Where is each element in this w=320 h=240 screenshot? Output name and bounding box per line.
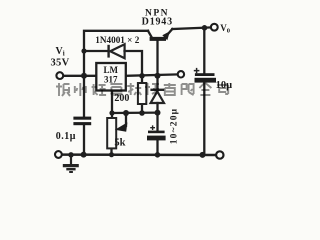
diode D1 triangle <box>110 44 124 58</box>
junction: C2 branch at V0 rail <box>202 25 208 31</box>
junction: input branch at ground rail <box>81 152 87 158</box>
svg-text:317: 317 <box>104 75 118 85</box>
svg-text:35V: 35V <box>51 57 70 68</box>
transistor Q1 D1943 base bar <box>150 37 166 41</box>
junction: D1/R1 branch at output wire <box>139 73 145 79</box>
wire: LM317 output to mid terminal <box>126 74 178 75</box>
wire: pot bottom lead <box>110 148 112 154</box>
junction: diode branch at input node <box>81 48 86 53</box>
wire: transistor emitter diagonal <box>164 29 172 38</box>
capacitor C3 10~20u plates <box>148 131 165 134</box>
svg-text:10~20μ: 10~20μ <box>170 108 180 145</box>
potentiometer R2 5k box <box>107 118 116 148</box>
svg-text:0.1μ: 0.1μ <box>56 131 76 142</box>
junction: ADJ lead at ADJ wire <box>109 110 114 115</box>
wire: emitter rail to V0 terminal <box>172 27 211 29</box>
wire: pot wiper lead from ADJ wire <box>125 113 127 126</box>
terminal mid output <box>178 71 184 77</box>
capacitor C1 0.1u plates <box>73 117 91 120</box>
wire: input node vertical x=84 lower (below 0.1u cap to ground rail) <box>83 125 85 155</box>
wire: transistor collector diagonal <box>148 31 152 38</box>
junction: wiper lead at ADJ wire <box>123 110 129 116</box>
svg-text:5k: 5k <box>114 138 125 149</box>
svg-text:D1943: D1943 <box>142 17 173 28</box>
wire: C3 bottom to ground rail <box>156 140 158 154</box>
wire: ground rail <box>62 153 216 156</box>
wire: diode to corner then down to LM317 output wire <box>125 51 143 83</box>
diode D2 triangle <box>151 91 164 103</box>
terminal ground right <box>216 151 223 158</box>
wire: input from Vi terminal to LM317 <box>64 75 97 77</box>
capacitor C2 plus mark <box>194 68 200 73</box>
wire: output cap branch upper <box>203 28 205 73</box>
paper background <box>0 0 295 175</box>
junction: C2 branch at ground rail <box>200 152 206 158</box>
junction: C3 at ground rail <box>155 152 161 158</box>
svg-text:1N4001 × 2: 1N4001 × 2 <box>95 35 139 45</box>
capacitor C3 plus mark <box>150 125 155 130</box>
terminal V0 output <box>211 24 218 31</box>
watermark row (gray pseudo-CJK blobs) <box>56 83 228 96</box>
wire: input node vertical x=84 upper (to diode loop top) <box>84 31 148 117</box>
capacitor C2 10u plates <box>195 73 215 76</box>
potentiometer R2 wiper arrow <box>115 122 128 131</box>
junction: R1 lead at ADJ wire <box>139 110 145 116</box>
terminal Vi input <box>56 72 63 79</box>
wire: ADJ horizontal wire <box>112 111 158 114</box>
junction: input wire at node A <box>81 73 87 79</box>
ground <box>63 155 79 172</box>
wire: R1 200 bottom lead <box>141 104 143 113</box>
wire: D2 anode down through ADJ wire to cap C3 <box>156 103 158 131</box>
wire: transistor base lead down to output wire <box>156 41 158 76</box>
junction: base lead at output wire <box>155 73 161 79</box>
terminal ground left <box>55 151 62 158</box>
transistor Q1 emitter arrow <box>162 31 170 40</box>
wire: output wire down to protection diode D2 <box>156 76 158 90</box>
junction: D2/C3 at ADJ wire end <box>155 110 161 116</box>
junction: ground stub at rail <box>68 152 73 157</box>
diode D1 1N4001 (points left) cathode bar <box>107 45 109 58</box>
wire: diode branch from input node <box>84 50 108 52</box>
resistor R1 200 box <box>138 83 146 104</box>
wire: LM317 ADJ pin down to pot top <box>111 91 113 119</box>
regulator U1 LM317 box <box>96 63 126 91</box>
wire: output cap branch lower <box>203 82 205 154</box>
svg-text:LM: LM <box>104 65 119 75</box>
junction: pot bottom at ground rail <box>109 152 114 157</box>
diode D2 (points up) bar <box>150 89 164 91</box>
